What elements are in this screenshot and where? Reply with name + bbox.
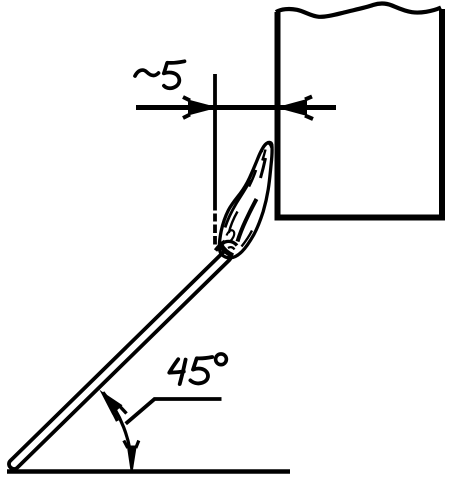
match stick	[7, 250, 232, 471]
arc arrowhead at match	[99, 389, 126, 421]
lower right squiggle	[242, 231, 253, 247]
heavy inner stroke right	[238, 199, 257, 242]
degree circle	[216, 354, 227, 365]
long left inner squiggle	[225, 180, 250, 228]
arc arrowhead at baseline	[124, 441, 139, 471]
small loop in bulb	[227, 230, 235, 241]
flame outline	[219, 142, 272, 257]
small breaks in lower extension line	[213, 211, 218, 214]
label ~5 (tilde drawn, 5 as text)	[135, 70, 159, 76]
arrowhead pointing left at workpiece face	[280, 97, 314, 120]
flame tip hook	[262, 143, 269, 152]
tip inner stroke	[262, 150, 265, 161]
leader line for 45 deg label	[126, 399, 222, 424]
dark match head strokes	[221, 245, 234, 256]
dimension line ~5	[136, 105, 336, 110]
extension line from match tip	[213, 74, 217, 245]
flame	[216, 142, 273, 257]
label 45 degrees	[169, 359, 184, 373]
wavy break line (top edge of part)	[276, 4, 441, 17]
inner stroke neck right	[261, 158, 266, 178]
45 degree angle arc	[103, 392, 132, 467]
workpiece rectangle (part being heated)	[276, 4, 442, 218]
baseline (striking surface)	[7, 469, 290, 474]
inner stroke neck left	[249, 170, 256, 187]
arrowhead pointing right at extension line	[183, 97, 215, 118]
mid bulb squiggle	[229, 212, 238, 234]
